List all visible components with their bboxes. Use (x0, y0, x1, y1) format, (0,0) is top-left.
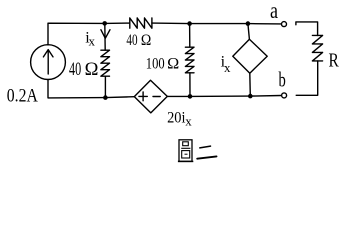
wire top to terminal a (248, 23, 281, 25)
svg-text:b: b (279, 68, 286, 92)
wire ix branch bottom (249, 73, 252, 96)
wire 100ohm branch top (189, 24, 191, 47)
node junction dot top 100ohm (187, 21, 192, 26)
svg-text:a: a (270, 0, 278, 23)
wire top middle (junction to 40ohm resistor) (105, 22, 130, 24)
svg-text:x: x (89, 33, 96, 48)
svg-text:20i: 20i (167, 110, 186, 127)
caption glyph TU (figure) drawn (178, 140, 193, 162)
resistor 40ohm vertical zigzag (101, 50, 110, 76)
resistor R vertical zigzag (312, 35, 322, 61)
dependent voltage source 20ix diamond (134, 80, 167, 113)
wire 40ohm resistor bottom (104, 76, 106, 97)
node junction dot top left (102, 21, 107, 26)
node junction dot top ix (246, 21, 251, 26)
svg-text:Ω: Ω (167, 55, 179, 72)
wire bottom to dependent source 20ix (105, 96, 134, 99)
svg-text:x: x (185, 114, 192, 129)
svg-text:x: x (224, 60, 231, 75)
wire R branch bottom (296, 61, 318, 95)
svg-text:R: R (329, 50, 340, 72)
dependent current source ix diamond (233, 39, 267, 73)
terminal b open circle (282, 93, 287, 98)
wire top left vertical (48, 23, 105, 45)
svg-text:100: 100 (146, 55, 165, 72)
plus sign inside source (139, 95, 147, 97)
terminal a open circle (282, 22, 287, 27)
minus sign inside source (153, 96, 160, 98)
svg-text:0.2A: 0.2A (7, 86, 38, 107)
wire bottom from 100ohm node to ix node (190, 95, 250, 97)
wire R branch top horizontal (296, 22, 318, 36)
node junction dot bottom 40ohm (103, 95, 108, 100)
resistor 100ohm vertical zigzag (185, 47, 194, 73)
svg-text:40: 40 (126, 32, 137, 49)
current source I1 circle 0.2A (31, 45, 66, 80)
wire top between 40ohm and 100ohm node (152, 22, 190, 25)
svg-text:Ω: Ω (85, 60, 99, 80)
node junction dot bottom 100ohm (188, 94, 193, 99)
wire ix branch top (248, 24, 250, 40)
wire ix arrow on 40ohm branch (104, 23, 106, 50)
node junction dot bottom ix (248, 94, 253, 99)
wire 100ohm branch bottom (189, 73, 191, 97)
wire bottom to terminal b (250, 95, 281, 98)
wire bottom from 20ix source to 100ohm node (167, 95, 190, 97)
wire bottom left vertical (48, 80, 105, 98)
current source arrow (47, 50, 49, 74)
svg-text:40: 40 (69, 60, 81, 80)
wire top between 100ohm node and ix source node (190, 23, 248, 25)
caption glyph ER (two) drawn (197, 146, 216, 159)
resistor 40ohm horizontal zigzag (130, 18, 152, 28)
svg-text:Ω: Ω (141, 32, 151, 49)
